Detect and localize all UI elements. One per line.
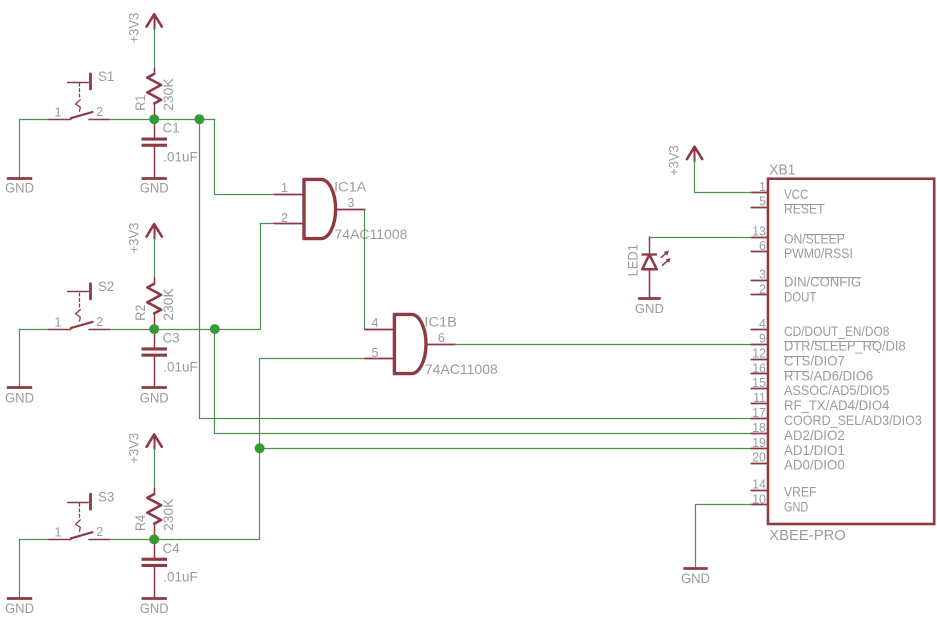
svg-text:C3: C3 — [163, 330, 180, 346]
svg-text:R4: R4 — [133, 514, 148, 531]
svg-text:2: 2 — [281, 211, 288, 225]
svg-text:DIN/CONFIG: DIN/CONFIG — [784, 274, 861, 290]
svg-text:1: 1 — [55, 526, 62, 540]
svg-text:19: 19 — [752, 436, 766, 450]
svg-text:C1: C1 — [163, 120, 180, 136]
svg-text:6: 6 — [438, 331, 445, 345]
svg-text:230K: 230K — [161, 78, 176, 110]
svg-text:2: 2 — [759, 282, 766, 296]
svg-text:GND: GND — [5, 181, 34, 196]
svg-text:230K: 230K — [161, 499, 176, 531]
svg-text:DOUT: DOUT — [784, 288, 817, 304]
svg-text:RF_TX/AD4/DIO4: RF_TX/AD4/DIO4 — [784, 397, 890, 413]
svg-text:3: 3 — [348, 196, 355, 210]
svg-text:74AC11008: 74AC11008 — [425, 362, 498, 377]
svg-text:1: 1 — [281, 181, 288, 195]
svg-text:VCC: VCC — [784, 186, 808, 202]
svg-text:S1: S1 — [98, 69, 114, 84]
svg-text:18: 18 — [752, 421, 766, 435]
svg-text:17: 17 — [752, 406, 766, 420]
svg-text:+3V3: +3V3 — [126, 13, 141, 44]
svg-text:AD2/DIO2: AD2/DIO2 — [784, 427, 845, 443]
svg-text:VREF: VREF — [784, 484, 816, 500]
svg-text:IC1B: IC1B — [424, 315, 456, 330]
svg-text:.01uF: .01uF — [163, 569, 198, 585]
svg-text:XBEE-PRO: XBEE-PRO — [769, 527, 846, 544]
svg-text:ASSOC/AD5/DIO5: ASSOC/AD5/DIO5 — [784, 382, 890, 398]
svg-text:R1: R1 — [133, 95, 148, 111]
svg-text:GND: GND — [681, 570, 710, 586]
svg-text:4: 4 — [371, 316, 378, 330]
svg-text:DTR/SLEEP_RQ/DI8: DTR/SLEEP_RQ/DI8 — [784, 338, 906, 354]
svg-text:GND: GND — [784, 499, 808, 515]
svg-text:1: 1 — [55, 105, 62, 119]
svg-text:.01uF: .01uF — [163, 149, 198, 165]
svg-text:XB1: XB1 — [769, 161, 795, 178]
svg-text:20: 20 — [752, 451, 766, 465]
svg-text:AD1/DIO1: AD1/DIO1 — [784, 442, 845, 458]
svg-text:GND: GND — [5, 601, 34, 616]
svg-text:5: 5 — [371, 346, 378, 360]
svg-text:16: 16 — [752, 361, 766, 375]
svg-text:5: 5 — [759, 195, 766, 209]
svg-text:R2: R2 — [133, 305, 148, 321]
svg-text:14: 14 — [752, 478, 766, 492]
svg-text:GND: GND — [5, 391, 34, 406]
svg-text:2: 2 — [96, 525, 103, 539]
svg-text:LED1: LED1 — [626, 244, 641, 276]
svg-text:PWM0/RSSI: PWM0/RSSI — [784, 245, 853, 261]
svg-text:+3V3: +3V3 — [126, 433, 141, 464]
svg-text:74AC11008: 74AC11008 — [335, 227, 408, 242]
svg-text:+3V3: +3V3 — [667, 145, 682, 176]
svg-text:IC1A: IC1A — [334, 180, 366, 195]
svg-text:GND: GND — [140, 181, 169, 196]
svg-text:3: 3 — [759, 268, 766, 282]
svg-text:COORD_SEL/AD3/DIO3: COORD_SEL/AD3/DIO3 — [784, 412, 922, 428]
svg-text:+3V3: +3V3 — [126, 223, 141, 254]
svg-text:GND: GND — [140, 601, 169, 616]
svg-text:230K: 230K — [161, 288, 176, 320]
svg-text:13: 13 — [752, 225, 766, 239]
svg-text:12: 12 — [752, 347, 766, 361]
svg-text:2: 2 — [96, 105, 103, 119]
svg-text:9: 9 — [759, 332, 766, 346]
svg-text:1: 1 — [55, 315, 62, 329]
svg-text:RESET: RESET — [784, 201, 825, 217]
svg-text:1: 1 — [759, 180, 766, 194]
svg-text:.01uF: .01uF — [163, 358, 198, 374]
svg-text:GND: GND — [635, 301, 664, 316]
svg-text:S2: S2 — [98, 279, 114, 294]
svg-text:GND: GND — [140, 391, 169, 406]
svg-text:11: 11 — [753, 391, 766, 405]
svg-text:10: 10 — [752, 492, 766, 506]
svg-text:CTS/DIO7: CTS/DIO7 — [784, 353, 845, 369]
svg-text:6: 6 — [759, 239, 766, 253]
svg-text:S3: S3 — [98, 489, 114, 504]
svg-text:C4: C4 — [163, 540, 180, 556]
svg-text:2: 2 — [96, 315, 103, 329]
svg-text:15: 15 — [752, 376, 766, 390]
svg-text:RTS/AD6/DIO6: RTS/AD6/DIO6 — [784, 367, 873, 383]
svg-text:AD0/DIO0: AD0/DIO0 — [784, 457, 845, 473]
svg-text:4: 4 — [759, 317, 766, 331]
